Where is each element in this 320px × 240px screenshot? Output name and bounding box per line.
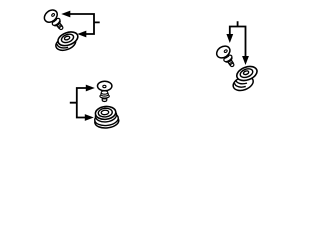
arrow to grommet B xyxy=(85,114,94,121)
grommet A xyxy=(53,29,81,52)
arrow to screw C xyxy=(226,34,233,43)
arrow to screw A xyxy=(61,11,70,18)
grommet C xyxy=(228,64,261,93)
screw A xyxy=(42,7,67,33)
grommet B xyxy=(93,105,119,129)
wire bracket B xyxy=(70,88,87,118)
screw C xyxy=(214,44,238,71)
arrow to grommet C xyxy=(242,56,249,65)
arrow to grommet A xyxy=(77,31,86,38)
wire bracket C xyxy=(230,21,246,56)
screw B xyxy=(98,81,112,101)
wire bracket A xyxy=(70,14,100,34)
arrow to screw B xyxy=(86,85,95,92)
